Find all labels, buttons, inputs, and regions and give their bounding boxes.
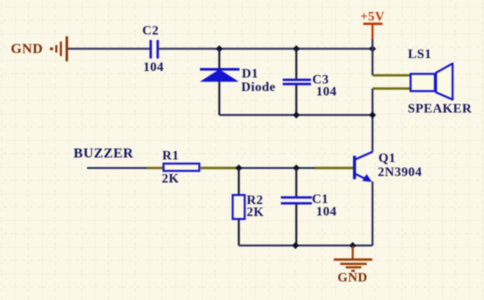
wire C3 vertical top bbox=[295, 49, 297, 79]
wire emitter down bbox=[372, 182, 374, 246]
svg-text:104: 104 bbox=[316, 203, 337, 218]
svg-text:2K: 2K bbox=[247, 204, 265, 219]
wire olive into R1 bbox=[147, 167, 163, 169]
wire junction to C1 bbox=[239, 167, 315, 169]
wire R1 to junction bbox=[200, 167, 239, 169]
junction at +5V bbox=[369, 45, 376, 52]
transistor Q1 bbox=[355, 152, 373, 182]
svg-text:R1: R1 bbox=[162, 148, 179, 163]
resistor R1 bbox=[164, 164, 200, 171]
svg-text:104: 104 bbox=[143, 59, 164, 74]
wire C1 to base bbox=[315, 167, 353, 169]
wire GND to C2 bbox=[68, 48, 150, 50]
junction at C1 top bbox=[293, 164, 300, 171]
wire +5V down to speaker bbox=[372, 39, 374, 75]
junction at R2 top bbox=[235, 164, 242, 171]
svg-text:Diode: Diode bbox=[241, 79, 276, 94]
power port +5V bbox=[360, 8, 385, 40]
svg-text:104: 104 bbox=[316, 83, 337, 98]
svg-text:GND: GND bbox=[11, 42, 43, 57]
svg-text:LS1: LS1 bbox=[408, 46, 432, 61]
svg-text:2K: 2K bbox=[162, 171, 180, 186]
svg-text:BUZZER: BUZZER bbox=[74, 147, 134, 162]
svg-text:C2: C2 bbox=[142, 23, 159, 38]
svg-text:+5V: +5V bbox=[360, 8, 385, 23]
wire D1/C3 bottom rail bbox=[219, 114, 372, 116]
junction at collector rail bbox=[369, 111, 376, 118]
wire C3 vertical bottom bbox=[295, 85, 297, 115]
wire bottom rail bbox=[239, 245, 373, 247]
junction at C3 bottom bbox=[293, 111, 300, 118]
wire R2 bottom lead bbox=[238, 220, 240, 246]
junction at C3 top bbox=[293, 45, 300, 52]
capacitor C1 bbox=[281, 197, 312, 203]
capacitor C2 bbox=[151, 40, 158, 59]
wire C1 bottom lead bbox=[295, 204, 297, 245]
wire speaker top terminal bbox=[373, 74, 411, 76]
junction at C1 bottom bbox=[292, 242, 299, 249]
junction at GND stub bbox=[349, 242, 356, 249]
speaker LS1 bbox=[411, 64, 453, 100]
wire C2 to +5V rail bbox=[159, 48, 373, 50]
wire D1 vertical bbox=[218, 49, 220, 115]
wire R2 top lead bbox=[238, 168, 240, 194]
junction at D1 top bbox=[216, 45, 223, 52]
wire C1 top lead bbox=[295, 168, 297, 196]
wire speaker to collector node bbox=[372, 89, 374, 152]
resistor R2 bbox=[233, 195, 245, 219]
diode D1 bbox=[200, 69, 240, 82]
capacitor C3 bbox=[283, 80, 311, 84]
svg-text:Q1: Q1 bbox=[378, 150, 395, 165]
svg-text:2N3904: 2N3904 bbox=[378, 164, 422, 179]
svg-text:SPEAKER: SPEAKER bbox=[408, 101, 472, 116]
wire BUZZER to R1 bbox=[87, 167, 147, 169]
power port GND (top left) bbox=[11, 36, 68, 61]
wire speaker bottom terminal bbox=[373, 87, 411, 89]
svg-text:GND: GND bbox=[337, 270, 367, 285]
power port GND (bottom) bbox=[334, 246, 373, 285]
